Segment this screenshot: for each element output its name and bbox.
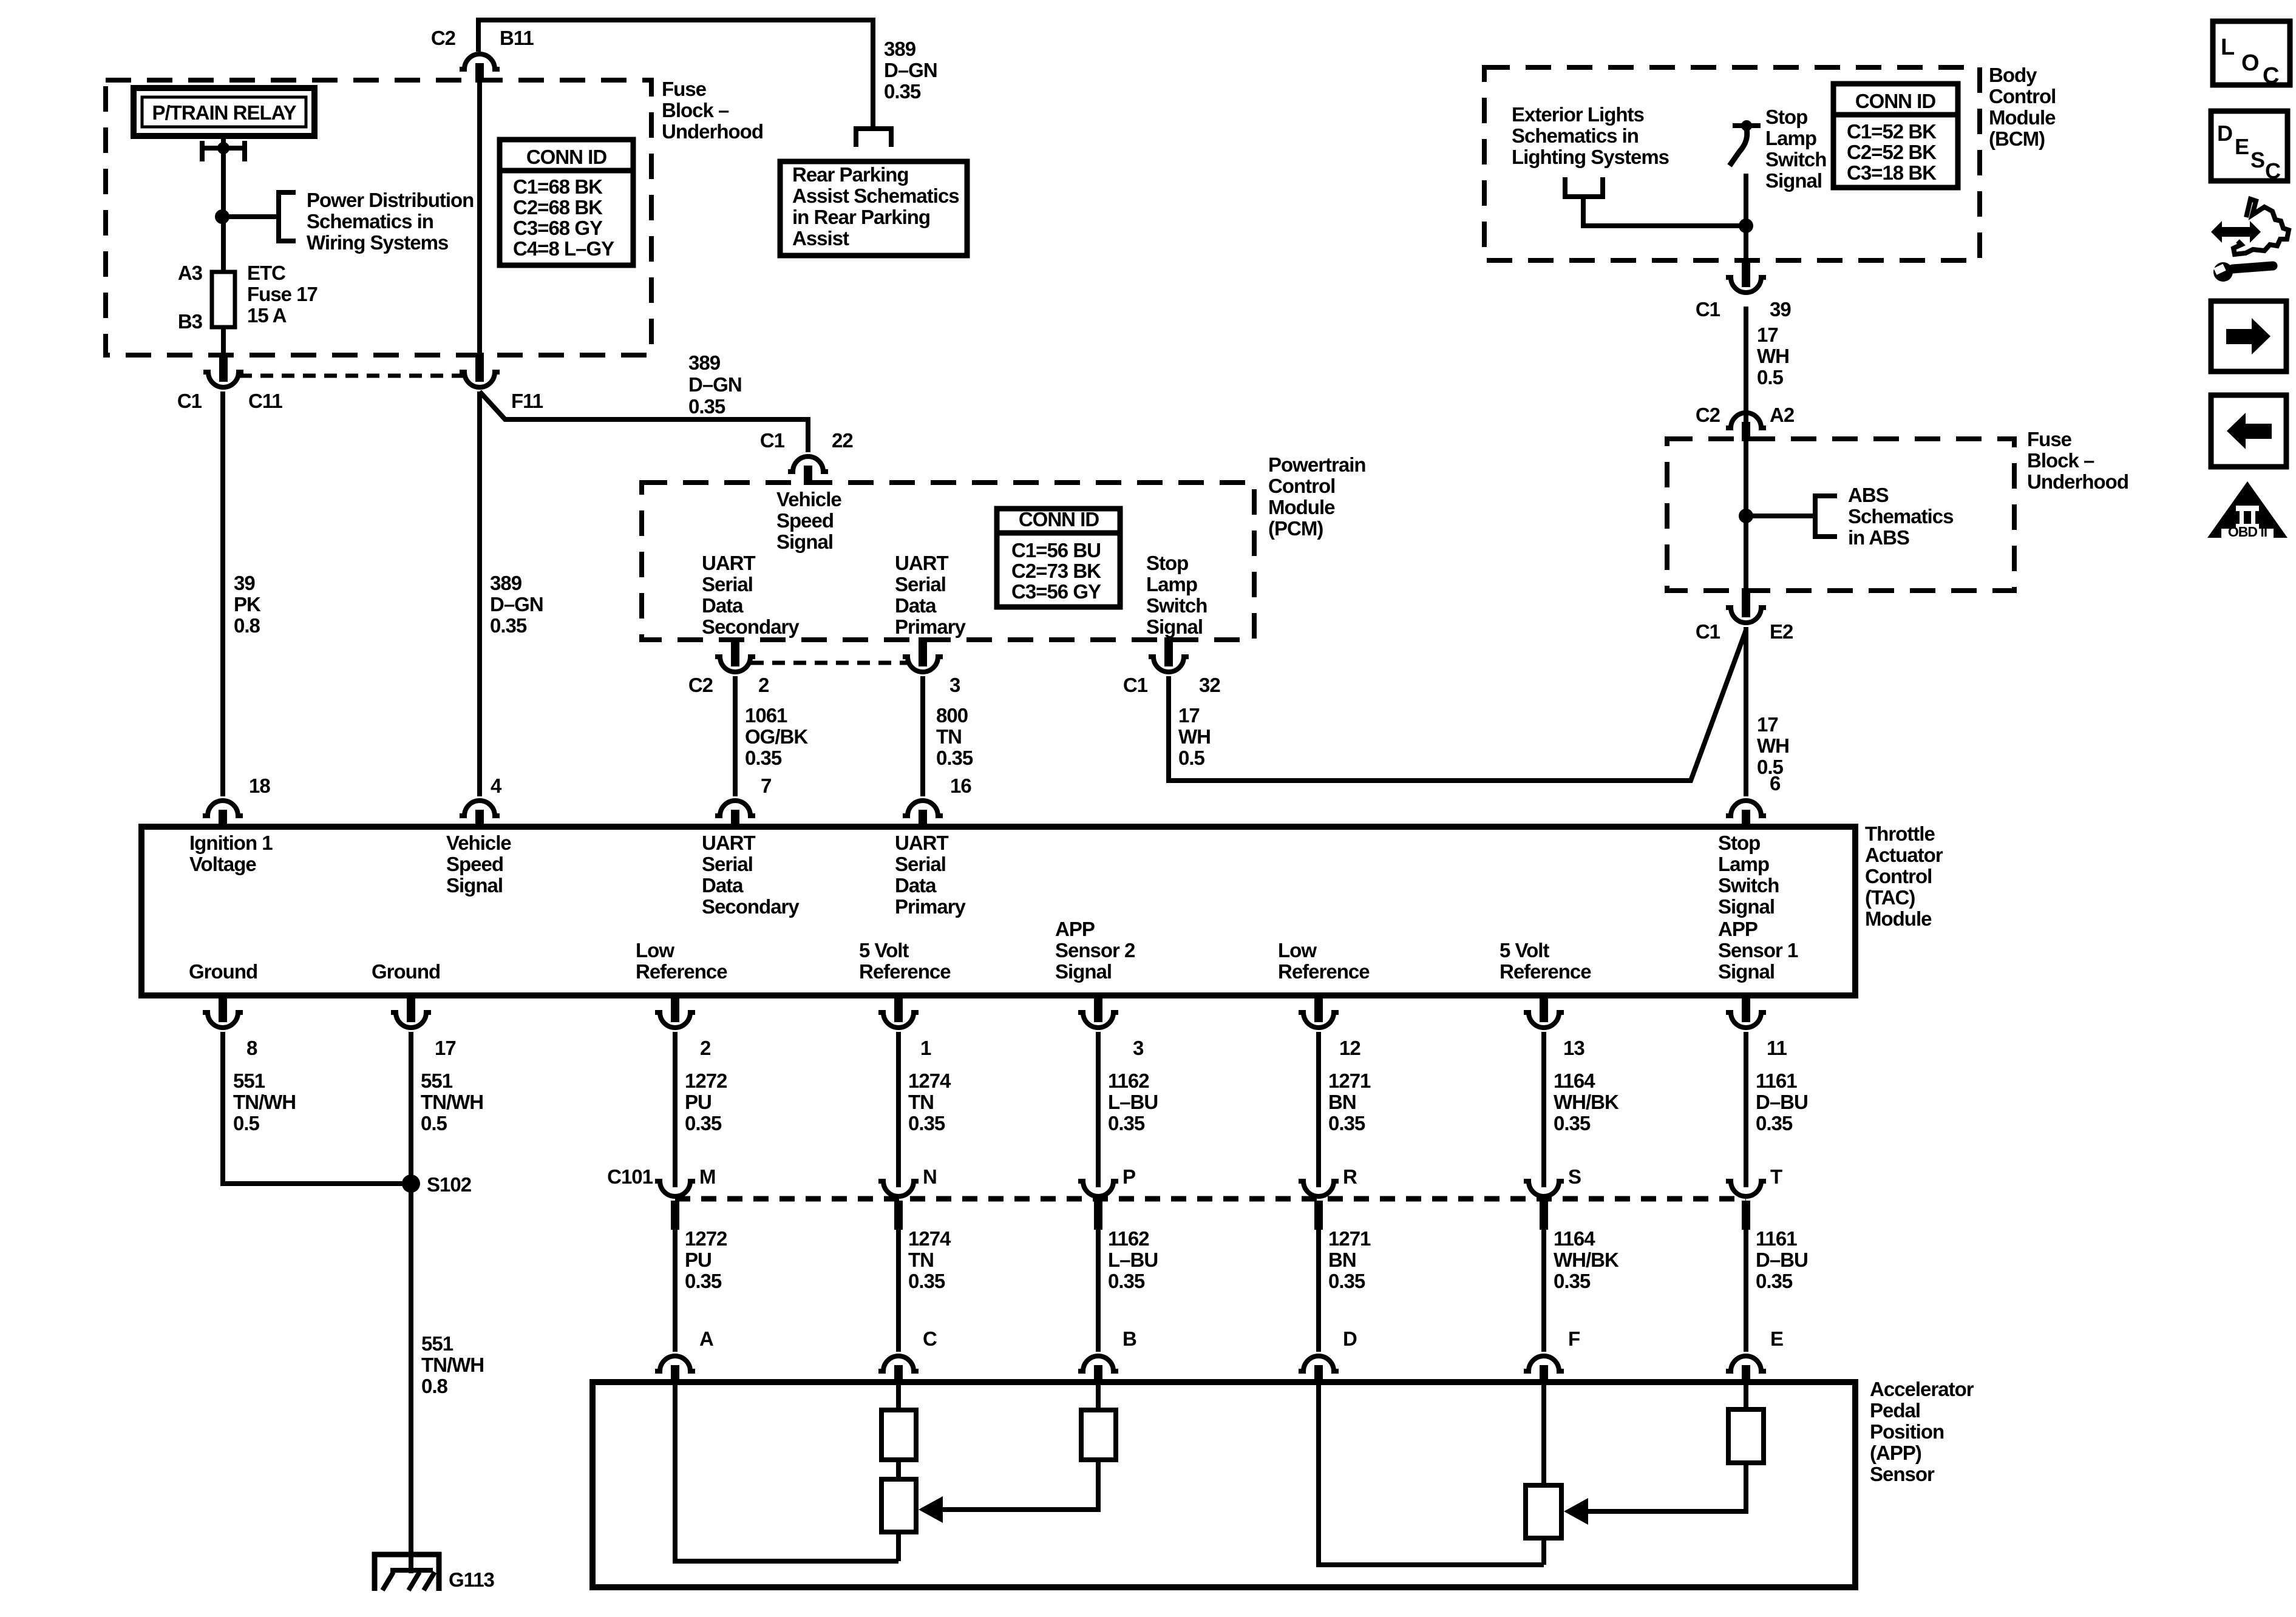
svg-text:UART: UART bbox=[702, 552, 755, 574]
wire APP pin B to resistor bbox=[1096, 1382, 1101, 1410]
svg-text:Primary: Primary bbox=[895, 895, 966, 918]
svg-text:D: D bbox=[2217, 121, 2232, 146]
wire 1271 BN to APP bbox=[1316, 1230, 1321, 1352]
wire stop lamp PCM to node bbox=[1169, 630, 1746, 781]
svg-text:Low: Low bbox=[636, 939, 674, 961]
splice S102 bbox=[402, 1175, 420, 1193]
svg-text:11: 11 bbox=[1767, 1037, 1787, 1059]
inline connector C101 dashed line bbox=[675, 1196, 1746, 1202]
svg-text:Stop: Stop bbox=[1718, 832, 1760, 854]
connector TAC pin 17 bbox=[407, 993, 415, 1022]
svg-text:C2: C2 bbox=[688, 674, 713, 696]
connector TAC pin 7 bbox=[715, 801, 755, 816]
wiper arrow APP sensor 2 bbox=[919, 1496, 943, 1523]
svg-text:15 A: 15 A bbox=[247, 304, 287, 327]
throttle actuator control TAC module (box) bbox=[141, 827, 1855, 995]
wire APP pin A bbox=[675, 1382, 898, 1561]
connector F11 (fuse block to TAC harness) bbox=[475, 353, 484, 382]
connector TAC pin 2 bbox=[671, 993, 679, 1022]
svg-text:B3: B3 bbox=[178, 310, 203, 333]
rear parking assist box bbox=[780, 161, 967, 256]
potentiometer wiper APP sensor 1 bbox=[1526, 1485, 1561, 1538]
svg-text:Lighting Systems: Lighting Systems bbox=[1512, 146, 1669, 168]
svg-text:Switch: Switch bbox=[1765, 148, 1826, 171]
wire 17 WH to TAC pin 6 bbox=[1744, 627, 1748, 796]
icon right arrow box bbox=[2211, 301, 2286, 371]
svg-text:Control: Control bbox=[1268, 475, 1335, 497]
svg-text:(BCM): (BCM) bbox=[1989, 127, 2045, 150]
wire 1272 PU below TAC bbox=[673, 1032, 678, 1187]
svg-text:551: 551 bbox=[421, 1070, 453, 1092]
wire F11 to PCM C1-22 bbox=[480, 392, 808, 452]
wire 551 TN/WH below TAC bbox=[409, 1032, 413, 1184]
svg-text:12: 12 bbox=[1339, 1037, 1360, 1059]
wire 1274 TN below TAC bbox=[896, 1032, 901, 1187]
svg-text:22: 22 bbox=[832, 429, 853, 452]
svg-text:Fuse: Fuse bbox=[662, 78, 707, 100]
svg-text:TN: TN bbox=[908, 1091, 934, 1113]
svg-text:Lamp: Lamp bbox=[1146, 573, 1197, 595]
svg-text:Control: Control bbox=[1989, 85, 2056, 107]
svg-text:Module: Module bbox=[1268, 496, 1335, 518]
connector APP pin B bbox=[1078, 1356, 1118, 1371]
inline connector dotted line PCM UART bbox=[751, 661, 907, 665]
svg-text:CONN ID: CONN ID bbox=[526, 146, 607, 168]
svg-text:3: 3 bbox=[949, 674, 960, 696]
svg-text:2: 2 bbox=[700, 1037, 711, 1059]
icon left arrow box bbox=[2211, 395, 2286, 467]
svg-text:39: 39 bbox=[234, 572, 255, 594]
icon LOC box bbox=[2213, 21, 2290, 85]
svg-text:E: E bbox=[1770, 1327, 1783, 1350]
wire top horizontal 389 D-GN bbox=[478, 20, 873, 129]
resistor APP sensor 2 series bbox=[1081, 1410, 1116, 1460]
svg-text:Module: Module bbox=[1989, 106, 2056, 129]
svg-text:P: P bbox=[1123, 1165, 1135, 1188]
wire 1164 WH/BK to APP bbox=[1541, 1230, 1546, 1352]
svg-text:APP: APP bbox=[1055, 918, 1095, 940]
svg-text:0.5: 0.5 bbox=[1178, 747, 1205, 769]
svg-text:Accelerator: Accelerator bbox=[1870, 1378, 1974, 1400]
svg-text:8: 8 bbox=[246, 1037, 257, 1059]
svg-text:Reference: Reference bbox=[859, 960, 951, 983]
connector APP pin C bbox=[878, 1356, 919, 1371]
wire 39 PK to TAC pin 18 bbox=[220, 392, 225, 796]
svg-text:Speed: Speed bbox=[446, 853, 503, 875]
svg-text:Sensor 2: Sensor 2 bbox=[1055, 939, 1135, 961]
svg-text:L–BU: L–BU bbox=[1108, 1249, 1158, 1271]
svg-text:TN/WH: TN/WH bbox=[421, 1091, 483, 1113]
svg-text:1272: 1272 bbox=[685, 1227, 727, 1250]
off-page bracket rear parking bbox=[856, 129, 891, 147]
svg-text:Signal: Signal bbox=[1055, 960, 1112, 983]
potentiometer wiper APP sensor 2 bbox=[881, 1479, 916, 1532]
svg-text:Wiring Systems: Wiring Systems bbox=[307, 231, 448, 254]
connector TAC pin 16 bbox=[903, 801, 943, 816]
connector C101 pin S bbox=[1524, 1181, 1564, 1196]
off-page bracket power distribution bbox=[279, 192, 296, 241]
svg-text:0.35: 0.35 bbox=[1328, 1112, 1365, 1134]
connector APP pin E bbox=[1726, 1356, 1766, 1371]
svg-text:13: 13 bbox=[1563, 1037, 1584, 1059]
resistor APP sensor 1 series bbox=[1728, 1409, 1764, 1463]
svg-text:0.35: 0.35 bbox=[688, 395, 725, 418]
icon DESC box bbox=[2211, 111, 2288, 181]
svg-text:Block –: Block – bbox=[2027, 449, 2094, 472]
svg-text:C1=68 BK: C1=68 BK bbox=[513, 175, 603, 198]
svg-text:Body: Body bbox=[1989, 64, 2037, 86]
svg-text:Fuse: Fuse bbox=[2027, 428, 2072, 450]
svg-text:APP: APP bbox=[1718, 918, 1758, 940]
connector TAC pin 6 bbox=[1726, 801, 1766, 816]
svg-text:17: 17 bbox=[1757, 324, 1778, 346]
svg-text:(PCM): (PCM) bbox=[1268, 517, 1323, 540]
powertrain control module PCM (dashed box) bbox=[642, 483, 1254, 640]
svg-text:1: 1 bbox=[920, 1037, 931, 1059]
svg-text:Signal: Signal bbox=[1146, 615, 1203, 638]
svg-text:Vehicle: Vehicle bbox=[776, 488, 841, 510]
wire pin 8 to splice bbox=[223, 1032, 411, 1184]
icon repair hand with arrow and wrench bbox=[2211, 221, 2261, 243]
svg-text:A2: A2 bbox=[1770, 404, 1795, 426]
svg-text:G113: G113 bbox=[449, 1568, 495, 1591]
wire through fuse block 2 bbox=[1744, 439, 1748, 591]
conn id table PCM bbox=[997, 509, 1120, 607]
svg-text:0.35: 0.35 bbox=[685, 1270, 722, 1292]
svg-text:WH/BK: WH/BK bbox=[1554, 1249, 1619, 1271]
svg-text:Signal: Signal bbox=[1718, 960, 1775, 983]
svg-text:Stop: Stop bbox=[1765, 106, 1807, 128]
svg-text:D: D bbox=[1343, 1327, 1357, 1350]
resistor APP sensor 2 upper bbox=[881, 1410, 916, 1460]
svg-text:Actuator: Actuator bbox=[1865, 844, 1943, 866]
svg-text:0.35: 0.35 bbox=[1554, 1112, 1591, 1134]
svg-text:389: 389 bbox=[490, 572, 522, 594]
svg-text:Reference: Reference bbox=[1500, 960, 1591, 983]
svg-text:Voltage: Voltage bbox=[189, 853, 256, 875]
svg-text:17: 17 bbox=[435, 1037, 456, 1059]
svg-text:D–BU: D–BU bbox=[1756, 1091, 1808, 1113]
wire 1274 TN to APP bbox=[896, 1230, 901, 1352]
svg-text:L–BU: L–BU bbox=[1108, 1091, 1158, 1113]
connector C101 pin R bbox=[1299, 1181, 1339, 1196]
svg-text:C: C bbox=[2263, 63, 2279, 89]
wire 1162 L–BU to APP bbox=[1096, 1230, 1101, 1352]
wire 17 WH BCM to fuse block bbox=[1744, 307, 1748, 422]
svg-text:UART: UART bbox=[895, 832, 948, 854]
svg-text:C1: C1 bbox=[760, 429, 785, 452]
connector C2 pin A2 (fuse block 2) bbox=[1726, 413, 1766, 428]
svg-text:BN: BN bbox=[1328, 1091, 1356, 1113]
svg-text:Schematics in: Schematics in bbox=[1512, 124, 1639, 147]
svg-text:A3: A3 bbox=[178, 262, 203, 284]
svg-text:1162: 1162 bbox=[1108, 1070, 1149, 1092]
svg-text:Lamp: Lamp bbox=[1718, 853, 1769, 875]
connector C1 pin C11 (fuse block to TAC harness) bbox=[219, 353, 228, 382]
relay contact symbol bbox=[200, 141, 205, 161]
connector PCM C1 pin 32 bbox=[1164, 637, 1173, 666]
svg-text:Lamp: Lamp bbox=[1765, 127, 1816, 149]
connector APP pin F bbox=[1524, 1356, 1564, 1371]
connector C101 pin T bbox=[1726, 1181, 1766, 1196]
junction node (power distribution tap) bbox=[215, 209, 229, 224]
svg-text:F: F bbox=[1568, 1327, 1580, 1350]
wire wiper F to bottom bbox=[1541, 1538, 1546, 1565]
wire resistor E down bbox=[1588, 1463, 1746, 1511]
svg-text:Control: Control bbox=[1865, 865, 1932, 887]
svg-text:UART: UART bbox=[895, 552, 948, 574]
svg-text:Power Distribution: Power Distribution bbox=[307, 189, 474, 211]
svg-text:Switch: Switch bbox=[1146, 594, 1207, 617]
svg-text:C2=73 BK: C2=73 BK bbox=[1011, 560, 1101, 582]
svg-text:C1: C1 bbox=[1696, 620, 1720, 643]
svg-text:Throttle: Throttle bbox=[1865, 822, 1935, 845]
svg-text:1274: 1274 bbox=[908, 1070, 951, 1092]
svg-text:ETC: ETC bbox=[247, 262, 285, 284]
connector C101 pin P bbox=[1078, 1181, 1118, 1196]
wire APP pin D bbox=[1319, 1382, 1544, 1565]
connector TAC pin 18 bbox=[203, 801, 243, 816]
svg-text:0.35: 0.35 bbox=[1108, 1270, 1145, 1292]
svg-text:0.5: 0.5 bbox=[1757, 366, 1784, 388]
svg-text:Fuse 17: Fuse 17 bbox=[247, 283, 318, 305]
wire 1161 D–BU to APP bbox=[1744, 1230, 1748, 1352]
svg-text:Signal: Signal bbox=[1765, 169, 1822, 192]
svg-text:800: 800 bbox=[936, 704, 968, 727]
junction node BCM bbox=[1739, 219, 1753, 233]
svg-text:Ignition 1: Ignition 1 bbox=[189, 832, 273, 854]
connector PCM C2 pin 2 bbox=[731, 637, 739, 666]
svg-text:4: 4 bbox=[491, 775, 502, 797]
svg-text:C1: C1 bbox=[1123, 674, 1148, 696]
svg-text:BN: BN bbox=[1328, 1249, 1356, 1271]
wire branch to ABS bracket bbox=[1746, 514, 1815, 518]
svg-text:Sensor: Sensor bbox=[1870, 1463, 1935, 1485]
wire wiper to bottom bbox=[896, 1532, 901, 1561]
svg-text:WH: WH bbox=[1757, 345, 1789, 367]
svg-text:0.8: 0.8 bbox=[234, 614, 260, 637]
svg-text:0.35: 0.35 bbox=[936, 747, 973, 769]
svg-text:D–GN: D–GN bbox=[688, 373, 742, 396]
wire APP pin F to wiper bbox=[1541, 1382, 1546, 1485]
svg-text:Serial: Serial bbox=[895, 573, 946, 595]
wire APP pin E to resistor bbox=[1744, 1382, 1748, 1409]
wire 1164 WH/BK below TAC bbox=[1541, 1032, 1546, 1187]
svg-text:TN/WH: TN/WH bbox=[233, 1091, 296, 1113]
wire junction to fuse bbox=[221, 217, 226, 274]
svg-text:Serial: Serial bbox=[895, 853, 946, 875]
svg-text:B11: B11 bbox=[500, 27, 534, 49]
svg-text:S: S bbox=[1568, 1165, 1581, 1188]
svg-text:1162: 1162 bbox=[1108, 1227, 1149, 1250]
svg-text:C2=68 BK: C2=68 BK bbox=[513, 196, 603, 219]
svg-text:WH/BK: WH/BK bbox=[1554, 1091, 1619, 1113]
svg-text:in Rear Parking: in Rear Parking bbox=[792, 206, 930, 228]
svg-text:Data: Data bbox=[702, 874, 744, 897]
svg-text:Signal: Signal bbox=[1718, 895, 1775, 918]
svg-text:0.35: 0.35 bbox=[908, 1270, 945, 1292]
svg-text:Sensor 1: Sensor 1 bbox=[1718, 939, 1798, 961]
svg-text:32: 32 bbox=[1199, 674, 1220, 696]
svg-text:5 Volt: 5 Volt bbox=[859, 939, 909, 961]
svg-text:in ABS: in ABS bbox=[1848, 526, 1909, 549]
svg-text:389: 389 bbox=[688, 351, 721, 374]
svg-text:(TAC): (TAC) bbox=[1865, 886, 1915, 909]
ground G113 symbol bbox=[372, 1552, 441, 1558]
svg-text:M: M bbox=[699, 1165, 716, 1188]
svg-text:E: E bbox=[2235, 134, 2249, 159]
svg-text:PK: PK bbox=[234, 593, 261, 615]
svg-text:18: 18 bbox=[249, 775, 270, 797]
svg-text:Vehicle: Vehicle bbox=[446, 832, 511, 854]
svg-text:0.35: 0.35 bbox=[908, 1112, 945, 1134]
wire 1162 L–BU below TAC bbox=[1096, 1032, 1101, 1187]
svg-text:2: 2 bbox=[758, 674, 769, 696]
svg-text:0.35: 0.35 bbox=[1328, 1270, 1365, 1292]
svg-text:Stop: Stop bbox=[1146, 552, 1188, 574]
svg-text:Assist Schematics: Assist Schematics bbox=[792, 185, 959, 207]
svg-text:PU: PU bbox=[685, 1249, 712, 1271]
svg-text:CONN ID: CONN ID bbox=[1855, 90, 1936, 112]
svg-text:C3=56 GY: C3=56 GY bbox=[1011, 580, 1101, 603]
svg-text:17: 17 bbox=[1757, 713, 1778, 736]
connector C2 pin B11 (fuse block) bbox=[460, 54, 500, 69]
connector TAC pin 11 bbox=[1742, 993, 1750, 1022]
wire 1061 OG/BK to TAC pin 7 bbox=[733, 676, 738, 796]
svg-text:5 Volt: 5 Volt bbox=[1500, 939, 1549, 961]
svg-text:39: 39 bbox=[1770, 298, 1791, 320]
svg-text:Ground: Ground bbox=[372, 960, 440, 983]
svg-text:C: C bbox=[923, 1327, 937, 1350]
svg-text:0.8: 0.8 bbox=[421, 1375, 448, 1397]
svg-text:C1: C1 bbox=[177, 390, 202, 412]
svg-text:C4=8 L–GY: C4=8 L–GY bbox=[513, 237, 614, 260]
svg-text:WH: WH bbox=[1757, 734, 1789, 757]
svg-text:C2: C2 bbox=[1696, 404, 1720, 426]
wire 1271 BN below TAC bbox=[1316, 1032, 1321, 1187]
conn id table fuse block bbox=[500, 140, 633, 265]
svg-text:Primary: Primary bbox=[895, 615, 966, 638]
connector TAC pin 4 bbox=[460, 801, 500, 816]
svg-text:T: T bbox=[1770, 1165, 1782, 1188]
svg-text:0.35: 0.35 bbox=[1554, 1270, 1591, 1292]
svg-text:1274: 1274 bbox=[908, 1227, 951, 1250]
wire fuse to box edge bbox=[221, 327, 226, 355]
svg-text:0.5: 0.5 bbox=[233, 1112, 260, 1134]
fuse block - underhood (dashed box) bbox=[106, 80, 651, 355]
svg-text:Data: Data bbox=[702, 594, 744, 617]
wire through fuse block col2 bbox=[477, 80, 482, 355]
wire APP pin C to resistor bbox=[896, 1382, 901, 1410]
junction node ABS tap bbox=[1739, 509, 1753, 523]
wire resistor B down bbox=[943, 1460, 1098, 1510]
wire switch to BCM edge bbox=[1744, 174, 1748, 260]
icon OBD II triangle bbox=[2207, 481, 2288, 538]
svg-text:16: 16 bbox=[950, 775, 971, 797]
svg-text:E2: E2 bbox=[1770, 620, 1793, 643]
connector TAC pin 12 bbox=[1314, 993, 1323, 1022]
svg-text:551: 551 bbox=[421, 1332, 453, 1355]
svg-text:Block –: Block – bbox=[662, 99, 729, 121]
svg-text:389: 389 bbox=[884, 38, 916, 60]
svg-text:CONN ID: CONN ID bbox=[1019, 508, 1099, 531]
svg-text:L: L bbox=[2221, 35, 2235, 60]
svg-text:R: R bbox=[1343, 1165, 1357, 1188]
svg-text:P/TRAIN RELAY: P/TRAIN RELAY bbox=[152, 101, 297, 124]
svg-text:C2: C2 bbox=[431, 27, 456, 49]
svg-text:C: C bbox=[2265, 158, 2281, 183]
connector PCM pin 3 bbox=[919, 637, 927, 666]
svg-text:Speed: Speed bbox=[776, 509, 834, 532]
svg-text:1161: 1161 bbox=[1756, 1227, 1797, 1250]
svg-text:Position: Position bbox=[1870, 1420, 1944, 1443]
svg-text:(APP): (APP) bbox=[1870, 1442, 1921, 1464]
svg-text:Powertrain: Powertrain bbox=[1268, 453, 1366, 476]
svg-text:C3=18 BK: C3=18 BK bbox=[1847, 161, 1937, 184]
svg-text:D–BU: D–BU bbox=[1756, 1249, 1808, 1271]
svg-text:Underhood: Underhood bbox=[2027, 470, 2128, 493]
svg-text:3: 3 bbox=[1133, 1037, 1144, 1059]
svg-text:0.35: 0.35 bbox=[1108, 1112, 1145, 1134]
svg-text:Schematics in: Schematics in bbox=[307, 210, 433, 232]
connector TAC pin 3 bbox=[1094, 993, 1102, 1022]
svg-text:Low: Low bbox=[1278, 939, 1317, 961]
accelerator pedal position APP sensor (box) bbox=[593, 1382, 1855, 1587]
svg-text:WH: WH bbox=[1178, 725, 1211, 748]
svg-text:TN/WH: TN/WH bbox=[421, 1354, 484, 1376]
svg-text:S102: S102 bbox=[427, 1173, 472, 1196]
svg-text:O: O bbox=[2241, 50, 2259, 76]
svg-text:Ground: Ground bbox=[189, 960, 257, 983]
svg-text:F11: F11 bbox=[511, 390, 543, 412]
svg-text:551: 551 bbox=[233, 1070, 265, 1092]
svg-text:A: A bbox=[699, 1327, 713, 1350]
wire relay to junction bbox=[221, 134, 226, 219]
svg-text:Switch: Switch bbox=[1718, 874, 1779, 897]
wire 1161 D–BU below TAC bbox=[1744, 1032, 1748, 1187]
connector TAC pin 8 bbox=[219, 993, 227, 1022]
svg-text:0.35: 0.35 bbox=[1756, 1112, 1793, 1134]
svg-text:S: S bbox=[2250, 147, 2264, 172]
svg-text:7: 7 bbox=[761, 775, 771, 797]
connector TAC pin 1 bbox=[894, 993, 903, 1022]
svg-text:6: 6 bbox=[1770, 772, 1781, 795]
svg-text:C1=56 BU: C1=56 BU bbox=[1011, 539, 1101, 561]
fuse block - underhood 2 (dashed box) bbox=[1667, 439, 2014, 591]
svg-text:C101: C101 bbox=[607, 1165, 653, 1188]
svg-text:0.35: 0.35 bbox=[490, 614, 527, 637]
svg-text:D–GN: D–GN bbox=[884, 59, 937, 81]
connector PCM C1 pin 22 bbox=[788, 456, 828, 472]
svg-text:1161: 1161 bbox=[1756, 1070, 1797, 1092]
svg-text:N: N bbox=[923, 1165, 937, 1188]
svg-text:0.35: 0.35 bbox=[745, 747, 782, 769]
svg-text:Data: Data bbox=[895, 594, 937, 617]
svg-text:C3=68 GY: C3=68 GY bbox=[513, 217, 603, 239]
svg-text:Underhood: Underhood bbox=[662, 120, 763, 143]
svg-text:C1: C1 bbox=[1696, 298, 1720, 320]
svg-text:PU: PU bbox=[685, 1091, 712, 1113]
svg-text:1164: 1164 bbox=[1554, 1070, 1595, 1092]
wire 1272 PU to APP bbox=[673, 1230, 678, 1352]
svg-text:0.35: 0.35 bbox=[884, 80, 921, 103]
wiper arrow APP sensor 1 bbox=[1564, 1498, 1588, 1525]
svg-text:1272: 1272 bbox=[685, 1070, 727, 1092]
off-page bracket ABS bbox=[1815, 496, 1837, 537]
svg-text:Exterior Lights: Exterior Lights bbox=[1512, 103, 1644, 126]
svg-text:1061: 1061 bbox=[745, 704, 787, 727]
svg-text:UART: UART bbox=[702, 832, 755, 854]
